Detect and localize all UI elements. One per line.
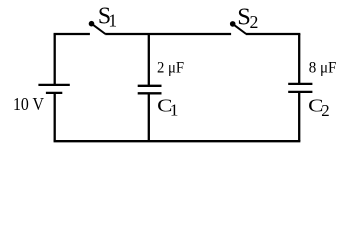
svg-text:1: 1: [170, 100, 179, 119]
svg-text:2: 2: [250, 12, 259, 32]
svg-text:10 V: 10 V: [13, 94, 44, 114]
svg-text:1: 1: [108, 10, 117, 30]
svg-text:2: 2: [321, 101, 329, 120]
svg-text:2 μF: 2 μF: [157, 59, 184, 76]
svg-text:8 μF: 8 μF: [309, 60, 337, 77]
